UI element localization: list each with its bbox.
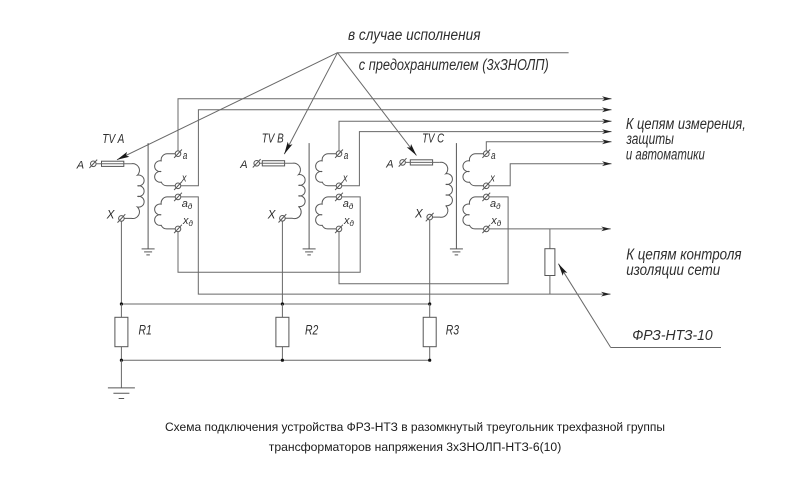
node R1 bottom: [120, 359, 123, 362]
node TV A X / R1 top: [120, 302, 123, 305]
node R2 bottom: [281, 359, 284, 362]
wire TV B terminal x to measurement bus 4: [342, 132, 612, 186]
svg-text:X: X: [414, 208, 424, 220]
TV A secondary winding a-x: [155, 154, 176, 186]
earth bus (bottoms of R1 R2 R3): [121, 359, 429, 361]
TV B terminal x: [336, 183, 342, 189]
svg-text:R2: R2: [305, 321, 318, 337]
TV C core / screen line: [455, 143, 457, 249]
svg-text:A: A: [76, 160, 84, 172]
note underline / leader base: [337, 52, 569, 54]
TV A terminal xd: [175, 226, 181, 232]
wire branch down to damping resistor: [549, 229, 551, 249]
leader arrow to TV B fuse: [284, 53, 337, 154]
svg-text:x: x: [489, 173, 495, 185]
resistor R2 body: [276, 317, 289, 346]
svg-text:TV C: TV C: [422, 132, 445, 146]
neutral bus (tops of R1 R2 R3): [121, 303, 429, 305]
svg-text:TV A: TV A: [102, 132, 124, 146]
pointer label underline: [611, 347, 721, 349]
wire TV A terminal a to measurement bus 1: [178, 99, 612, 151]
TV A auxiliary secondary winding ad-xd: [155, 197, 176, 229]
svg-text:К цепям контроля: К цепям контроля: [626, 246, 741, 263]
TV B terminal A: [254, 161, 260, 167]
svg-text:X: X: [106, 210, 116, 222]
TV A terminal A: [91, 161, 97, 167]
svg-text:x: x: [181, 173, 187, 185]
svg-text:защиты: защиты: [626, 131, 674, 148]
TV B auxiliary secondary winding ad-xd: [316, 197, 337, 229]
svg-text:R3: R3: [446, 321, 459, 337]
wire TV C terminal X down to R3: [429, 220, 431, 304]
TV B terminal X: [280, 216, 286, 222]
svg-text:a: a: [344, 150, 349, 162]
node R3 bottom: [428, 359, 431, 362]
wire TV B terminal a to measurement bus 3: [339, 121, 612, 151]
pointer arrow to damping resistor: [558, 264, 610, 348]
node TV C X / R3 top: [428, 302, 431, 305]
resistor R3 leads: [429, 304, 431, 317]
wire A through fuse to primary winding: [260, 162, 293, 164]
wire TV C terminal xd to insulation control bus (open delta end 2): [489, 228, 611, 230]
TV C primary winding A-X: [433, 162, 453, 217]
svg-text:TV B: TV B: [262, 132, 284, 146]
main ground: [108, 387, 135, 389]
wire A through fuse to primary winding: [96, 163, 131, 165]
wire TV A terminal X down to R1: [120, 221, 122, 304]
TV A terminal X: [119, 216, 125, 222]
svg-text:A: A: [385, 158, 393, 170]
TV A fuse F: [102, 161, 124, 166]
resistor R3 body: [423, 317, 436, 346]
resistor R1 leads: [120, 304, 122, 317]
TV C secondary winding a-x: [463, 154, 484, 186]
TV C fuse F: [410, 160, 432, 165]
wire earth bus to main ground: [120, 360, 122, 388]
TV A core / screen line: [147, 143, 149, 249]
TV C terminal X: [427, 214, 433, 220]
svg-text:и автоматики: и автоматики: [626, 147, 705, 164]
TV B fuse F: [262, 161, 284, 166]
TV B terminal ad: [336, 194, 342, 200]
wire TV A terminal ad to insulation control bus (open delta end 1): [181, 197, 611, 294]
TV B primary winding A-X: [285, 163, 305, 218]
TV C terminal x: [484, 183, 490, 189]
resistor R1 body: [115, 317, 128, 346]
TV C core ground: [450, 248, 463, 250]
TV C terminal A: [400, 160, 406, 166]
wire open delta link TV B xd to TV C ad: [339, 197, 508, 284]
TV A terminal ad: [175, 194, 181, 200]
TV C terminal xd: [484, 226, 490, 232]
TV B terminal xd: [336, 226, 342, 232]
TV A terminal a: [175, 151, 181, 157]
wire TV B terminal X down to R2: [281, 221, 283, 304]
TV C terminal a: [484, 151, 490, 157]
svg-text:A: A: [239, 159, 247, 171]
leader arrow to TV A fuse: [117, 53, 338, 160]
svg-text:в случае исполнения: в случае исполнения: [348, 27, 481, 44]
TV A core ground: [142, 248, 155, 250]
svg-text:a: a: [491, 150, 496, 162]
wire TV C terminal x to measurement bus 6: [489, 164, 611, 186]
node TV B X / R2 top: [281, 302, 284, 305]
TV A terminal x: [175, 183, 181, 189]
svg-text:a: a: [183, 150, 188, 162]
wire resistor bottom to control bus 2: [549, 276, 551, 295]
svg-text:Схема подключения устройства Ф: Схема подключения устройства ФРЗ-НТЗ в р…: [165, 420, 665, 434]
TV B core / screen line: [308, 143, 310, 249]
svg-text:R1: R1: [139, 321, 152, 337]
resistor R2 leads: [281, 304, 283, 317]
svg-text:x: x: [342, 173, 348, 185]
svg-text:с предохранителем (3хЗНОЛП): с предохранителем (3хЗНОЛП): [359, 57, 549, 74]
svg-text:изоляции сети: изоляции сети: [626, 262, 720, 279]
TV B secondary winding a-x: [316, 154, 337, 186]
wire A through fuse to primary winding: [405, 161, 439, 163]
TV A primary winding A-X: [124, 164, 144, 219]
TV B core ground: [303, 248, 316, 250]
TV C auxiliary secondary winding ad-xd: [463, 197, 484, 229]
svg-text:трансформаторов напряжения 3хЗ: трансформаторов напряжения 3хЗНОЛП-НТЗ-6…: [269, 440, 562, 454]
TV B terminal a: [336, 151, 342, 157]
wire TV A terminal x to measurement bus 2: [181, 110, 612, 186]
svg-text:ФРЗ-НТЗ-10: ФРЗ-НТЗ-10: [632, 328, 713, 344]
wire TV C terminal a to measurement bus 5: [486, 142, 611, 151]
leader arrow to TV C fuse: [338, 53, 417, 156]
damping resistor FRZ-NTZ-10 body: [545, 249, 555, 276]
wire open delta link TV A xd to TV B ad: [178, 197, 360, 272]
svg-text:X: X: [267, 210, 277, 222]
TV C terminal ad: [484, 194, 490, 200]
